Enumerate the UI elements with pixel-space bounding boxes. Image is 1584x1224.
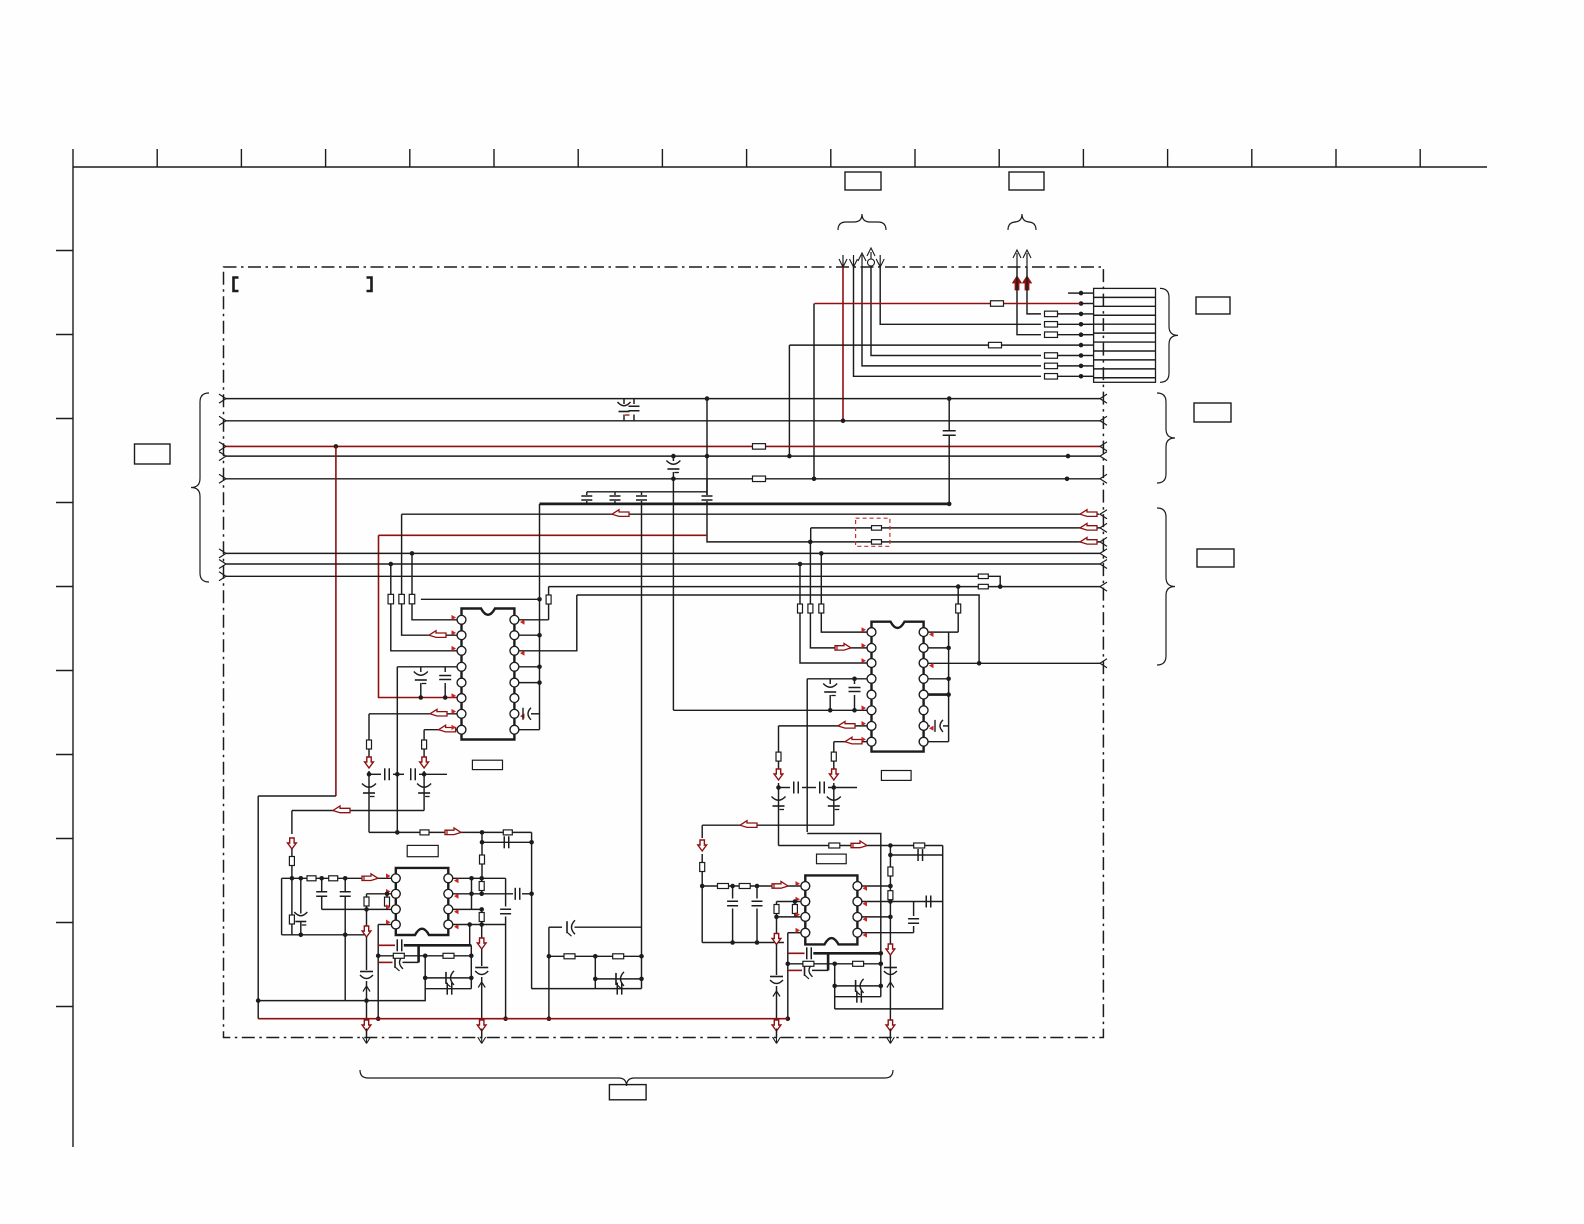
bus wire y=478.8 xyxy=(219,474,226,483)
polarized cap on wire y=970.4 xyxy=(804,965,806,976)
cap-arrow symbol on rail x=776.5 xyxy=(770,976,783,978)
resistor on wire y=832.4 left xyxy=(420,830,429,835)
wire IC1 pin3 from rail x=390.8 xyxy=(390,564,392,594)
red down arrow on rail x=890.4 xyxy=(886,944,895,955)
bus wire y=398.6 xyxy=(219,394,226,403)
red down arrow on rail x=481.7 xyxy=(477,938,486,949)
wire IC1 pin4 xyxy=(397,666,457,668)
wire y=564.0 xyxy=(219,560,226,569)
red arrow below red bus x=366.5 xyxy=(362,1020,371,1031)
wire IC4 pin1 with resistors xyxy=(702,885,800,887)
wire y=977.9 with pol cap xyxy=(423,976,428,981)
wire y=845.5 with resistors and arrow xyxy=(779,845,943,847)
wire top crossing x=1027 with red up arrow xyxy=(1026,253,1028,267)
left bus brace xyxy=(191,393,209,582)
rail x=371.8 continues to corner xyxy=(368,793,370,832)
red arrow below red bus x=481.7 xyxy=(477,1020,486,1031)
junction dot x=1068 y=456.1 xyxy=(1066,454,1071,459)
cap-arrow symbol on rail x=481.7 xyxy=(475,967,488,969)
wire y=842.3 with cap xyxy=(482,841,532,843)
rail x=787.8 down xyxy=(787,933,789,1019)
wire y=956.3 with resistors xyxy=(549,955,642,957)
page frame top ruler ticks xyxy=(73,149,1420,167)
red down arrow on rail x=369 xyxy=(365,757,374,768)
rail x=548.6 with resistor up to wire y=586.6 xyxy=(548,604,550,620)
op-amp IC1 body xyxy=(462,609,515,740)
junction dot x=397.3 y=832.4 xyxy=(395,830,400,835)
IC2 pins left xyxy=(867,628,876,746)
red down arrow on rail x=366.5 xyxy=(362,926,371,937)
wire y=855 with cap xyxy=(890,854,942,856)
connector brace xyxy=(1160,288,1178,382)
resistors on rail x=890.4 xyxy=(888,867,893,876)
resistor on connector pin5 wire xyxy=(1045,332,1058,338)
red arrow below red bus x=776.5 xyxy=(772,1020,781,1031)
wire y=796 from red vertical xyxy=(258,795,336,797)
red left arrow on IC2 pin7 wire xyxy=(838,721,855,728)
wire y=787.5 with series caps xyxy=(779,787,791,789)
wire IC3 pin1R xyxy=(453,877,506,879)
border crossing arrow x=481.7 xyxy=(478,1037,486,1044)
red left arrow on wire y=514.2 xyxy=(612,510,629,517)
red down arrow on rail x=833.8 xyxy=(829,769,838,780)
wire y=988.7 with cap xyxy=(425,988,471,990)
wire y=927.2 with pol cap xyxy=(549,926,562,928)
wire IC2 pin3R exit wire y=663.3 xyxy=(924,662,1100,664)
wire IC2 pin4 xyxy=(807,678,867,680)
red left arrow on IC1 pin7 wire xyxy=(430,709,447,716)
resistor on connector pin8 wire xyxy=(1045,363,1058,369)
electrolytic rail x=300.8 xyxy=(300,878,302,913)
red wire L from bus to IC1 pin6 xyxy=(379,534,708,536)
red right arrow on IC2 pin2 wire xyxy=(835,643,851,650)
red down arrow on rail x=424.1 xyxy=(420,757,429,768)
connector pin stubs and dots xyxy=(1079,291,1094,379)
wire vertical x=531.6 xyxy=(531,832,533,988)
rail x=834.7 xyxy=(834,964,836,1009)
connector pin1 stub wire xyxy=(1068,292,1081,294)
IC2 pin6 red mark xyxy=(862,705,867,710)
top over-brace 2 xyxy=(1008,214,1036,230)
wire IC2 pin3 from rail x=800 xyxy=(799,564,801,604)
red left arrow on IC1 pin8 wire xyxy=(439,725,456,732)
wire IC4 pin2 xyxy=(777,901,801,903)
rail x=807.2 down xyxy=(806,679,808,832)
wire IC1 pin7R with cap xyxy=(514,713,518,715)
bus wire y=446.4 red xyxy=(219,442,226,451)
junction dot x=539.5 y=599.3 xyxy=(537,597,542,602)
resistor on wire y=576.3 xyxy=(978,574,988,579)
wire y=514.2 xyxy=(402,513,1099,515)
wire IC4 pin4 xyxy=(788,932,801,934)
resistor on connector pin3 wire xyxy=(1045,311,1058,317)
wire IC1 pin5R xyxy=(514,682,539,684)
rail x=833.8 pin8 down xyxy=(833,742,835,752)
rail x=778.5 pin7 down xyxy=(778,726,780,752)
wire vertical x=673.4 to IC2 pin6 xyxy=(672,479,674,711)
junction dots on IC3 pin1 wire xyxy=(299,876,304,881)
wire IC3 pin4R xyxy=(453,924,506,926)
thick wire y=945.3 xyxy=(404,944,472,947)
wire IC1 pin8R xyxy=(514,729,539,731)
red dotted highlight box xyxy=(856,518,890,546)
wire IC2 pin2R xyxy=(924,647,949,649)
junction dot x=335.9 y=446.4 xyxy=(334,444,339,449)
junction dots on wire y=553.4 xyxy=(410,551,415,556)
IC3 label box xyxy=(407,845,438,856)
resistor rail x=387 between pin2 and pin3 wires xyxy=(386,894,388,897)
wire y=576.3 xyxy=(219,572,226,581)
rail x=425.2 xyxy=(258,956,425,1001)
bottom label box xyxy=(609,1085,646,1100)
red left arrow on wire y=810.5 xyxy=(333,806,350,813)
wire IC3 pin4 xyxy=(378,924,391,926)
red left arrow near border y=514.2 xyxy=(1080,510,1097,517)
red arrow below bus x=890.4 xyxy=(886,1020,895,1031)
capacitor pair between bus1 and bus2 xyxy=(623,399,625,404)
polarized cap on wire y=962.4 xyxy=(394,957,396,968)
wire y=810.5 with red arrow xyxy=(292,810,424,812)
junction dot x=948.5 y=398.6 xyxy=(947,396,952,401)
vertical x=539.5 from thick bus to pin8R xyxy=(539,504,541,730)
IC1 pins right xyxy=(510,615,519,734)
wire IC1 pin2 from rail x=401.6 xyxy=(401,514,403,594)
IC1 pin6 red mark xyxy=(452,693,457,698)
junction dot x=810.3 y=541.9 xyxy=(808,540,813,545)
page frame left ruler ticks xyxy=(56,251,73,1007)
red stub on wire y=962.4 xyxy=(378,961,392,963)
junction dots on IC4 pin1 wire xyxy=(730,884,735,889)
resistor on red bus y=446.4 xyxy=(753,444,766,450)
wire IC1 pin3R xyxy=(514,595,576,651)
cap rail x=732.6 xyxy=(732,886,734,899)
resistor on wire y=586.6 xyxy=(978,584,988,589)
thick bus wire y=503.9 xyxy=(540,502,950,505)
wire IC4 pin4R xyxy=(862,932,914,934)
wire y=832.4 under IC1 with resistors and arrow xyxy=(369,831,532,833)
wire top crossing x=862 xyxy=(861,255,863,267)
page frame left ruler line xyxy=(72,167,74,1147)
wire IC1 pin4R xyxy=(514,666,539,668)
cap on IC4 pin2R wire xyxy=(925,896,927,908)
bus wire y=420.8 xyxy=(219,416,226,425)
tall loop x=942.7 xyxy=(835,846,943,1009)
bottom brace xyxy=(360,1070,893,1086)
border crossing arrow x=776.5 xyxy=(773,1037,781,1044)
vertical x=505.6 with cap xyxy=(505,878,507,906)
IC1 label box xyxy=(472,760,502,769)
red left arrow on IC1 pin2 wire xyxy=(429,631,446,638)
wire IC2 pin5R thick xyxy=(924,693,949,696)
cap-arrow symbol on rail x=890.4 xyxy=(884,967,897,969)
vertical x=595.3 xyxy=(594,956,596,988)
wire top crossing x=1017 with red up arrow xyxy=(1016,253,1018,267)
red stub on thick wire y=953.3 xyxy=(788,952,805,954)
vertical x=471.3 xyxy=(470,945,472,988)
rail x=778.5 continues to corner xyxy=(778,806,780,846)
wire y=541.9 xyxy=(707,504,1100,542)
cap x=913.6 up xyxy=(913,926,915,933)
connector pin6 wire xyxy=(789,344,1081,346)
border crossing arrow x=366.5 xyxy=(363,1037,371,1044)
red left arrow on wire y=825.2 xyxy=(740,821,757,828)
wire IC2 pin1 from rail x=821.3 xyxy=(820,553,822,603)
junction dots on wire y=564.0 xyxy=(389,562,394,567)
junction dot x=1067 y=478.8 xyxy=(1065,477,1070,482)
capacitor row hanging from wire y=491.8 xyxy=(587,491,707,493)
wire IC4 pin2R xyxy=(862,901,943,903)
junction dot x=397.3 y=774.3 xyxy=(395,772,400,777)
wire IC2 pin2 from rail x=810.4 xyxy=(809,542,811,604)
IC3 pins left xyxy=(391,874,400,929)
wire IC2 pin8 xyxy=(834,741,867,743)
wire IC4 pin3 left xyxy=(777,916,801,918)
junction dots on wire y=586.6 xyxy=(956,584,961,589)
IC2 pins right xyxy=(919,628,928,746)
rail x=702.2 lower xyxy=(701,886,703,943)
capacitors between IC1 pin4 wire and red wire xyxy=(420,667,422,672)
thick wire y=953.3 xyxy=(813,952,881,955)
wire y=595.0 xyxy=(577,595,979,663)
red right arrow on wire y=832.4 xyxy=(445,828,461,835)
top label box 2 xyxy=(1009,172,1044,190)
IC2 label box xyxy=(881,771,911,781)
resistor on connector pin6 wire xyxy=(989,342,1002,348)
rail x=833.8 lower segment xyxy=(833,806,835,825)
wire vertical x=948.6 pin column xyxy=(948,632,950,742)
wire y=955.8 with resistors xyxy=(376,954,381,959)
IC3 pins right xyxy=(444,874,453,929)
rail x=366.5 from pin2 wire to border xyxy=(366,894,368,897)
wire y=963.8 with resistors xyxy=(786,962,791,967)
red stub on wire y=970.4 xyxy=(788,969,802,971)
rail x=291.9 lower with resistor xyxy=(291,878,293,915)
op-amp IC3 body xyxy=(396,868,449,935)
left bus label box xyxy=(135,444,171,464)
series cap on wire y=945.3 xyxy=(396,939,398,951)
rail x=397.3 down xyxy=(396,667,398,833)
junction dot x=482 y=832.4 xyxy=(480,830,485,835)
rail x=291.9 down to IC3 xyxy=(291,811,293,835)
wire y=978.9 with pol cap xyxy=(593,977,598,982)
resistor on wire y=832.4 right xyxy=(503,830,512,835)
rail x=890.4 down xyxy=(889,846,891,1038)
junction dot x=789.4 on wire y=456.1 xyxy=(787,454,792,459)
connector pin2 red wire xyxy=(815,303,1082,305)
wire top crossing x=843 red vertical xyxy=(842,255,844,267)
vertical x=548.9 to red bus xyxy=(548,927,550,1019)
right label box 2 xyxy=(1197,549,1234,567)
junction dot x=366.5 y=1000.6 xyxy=(364,998,369,1003)
IC pin circles overlay xyxy=(391,615,928,937)
IC4 label box xyxy=(817,854,847,864)
rail x=776.5 from pin2 wire to border xyxy=(776,902,778,905)
electrolytic cap below rail x=369 xyxy=(368,774,370,793)
rail x=481.7 down to border xyxy=(481,909,483,912)
resistor on wire y=527.9 xyxy=(872,526,882,531)
right brace group 1 xyxy=(1157,393,1175,483)
wire y=527.9 xyxy=(810,528,812,542)
IC1 pins left xyxy=(457,615,466,734)
wire black vertical x=814 xyxy=(813,304,815,479)
wire IC1 pin1R to resistor rail xyxy=(514,619,548,621)
resistor on bus y=478.8 xyxy=(753,476,766,482)
wire IC3 pin3R xyxy=(453,908,482,910)
wire IC2 pin7 xyxy=(779,725,868,727)
thick vertical x=828.1 xyxy=(827,953,830,970)
red down arrow on rail x=702.2 xyxy=(698,840,707,851)
wire IC3 pin1 with resistors xyxy=(282,877,391,879)
wire y=985.9 with pol cap xyxy=(832,984,837,989)
wire IC2 pin1R xyxy=(924,631,959,633)
junction dot x=843 on bus2 xyxy=(841,419,846,424)
red right arrow on IC4 pin1 wire xyxy=(772,882,788,889)
electrolytic cap below rail x=778.5 xyxy=(778,788,780,807)
op-amp IC2 body xyxy=(872,622,924,752)
junction dot x=673.4 y=478.8 xyxy=(671,477,676,482)
wire vertical x=949.2 with series cap xyxy=(948,399,950,431)
wire y=599.3 to vertical xyxy=(421,598,540,600)
rail x=958.2 resistor from wire y=586.6 xyxy=(957,587,959,604)
cap rail x=321.7 to pin3 wire xyxy=(321,878,323,891)
wire IC2 pin7R with cap xyxy=(924,725,930,727)
wire y=996.7 with cap xyxy=(835,996,881,998)
wire y=586.6 xyxy=(549,586,1100,588)
rail x=378.2 down xyxy=(377,925,379,1019)
wire vertical x=281.6 xyxy=(281,878,283,935)
red vertical x=335.9 xyxy=(335,446,337,796)
border crossing arrow x=890.4 xyxy=(886,1037,894,1044)
cap-arrow symbol on rail x=366.5 xyxy=(360,971,373,973)
bus wire y=456.1 xyxy=(219,452,226,461)
cap rail x=345.2 long xyxy=(344,878,346,891)
thick vertical x=418.6 xyxy=(417,945,420,962)
right label box 1 xyxy=(1194,403,1231,422)
capacitors between IC2 pin4 wire and pin6 wire xyxy=(829,679,831,684)
wire IC3 pin3 from cap rail x=321.7 xyxy=(322,908,391,910)
vertical x=471.5 pin1R to pin3R xyxy=(471,878,473,909)
junction dot x=814 on wire y=478.8 xyxy=(812,477,817,482)
wire IC1 pin1 from rail x=412 xyxy=(411,553,413,594)
resistor on connector pin7 wire xyxy=(1045,353,1058,359)
wire y=942.5 xyxy=(702,942,784,944)
red right arrow on IC3 pin1 wire xyxy=(362,874,378,881)
red stub on thick wire y=945.3 xyxy=(378,944,395,946)
board outline dash-dot box xyxy=(224,267,1104,1038)
wire IC4 pin1R xyxy=(862,885,890,887)
cap rail x=757 xyxy=(756,886,758,899)
series cap on wire y=953.3 xyxy=(806,947,808,959)
red bottom bus y=1018.7 xyxy=(258,1018,788,1020)
wire IC3 pin2 xyxy=(367,893,392,895)
electrolytic cap below rail x=833.8 xyxy=(833,788,835,807)
wire top crossing x=871 with circle xyxy=(870,252,872,267)
wire vertical x=789.4 xyxy=(788,345,790,456)
polarized capacitor x=673 between y=456 and y=478.8 xyxy=(671,454,676,459)
IC4 pins left xyxy=(801,882,810,938)
junction dot x=948.5 y=503.9 xyxy=(947,502,952,507)
wire IC1 pin8 xyxy=(424,729,457,731)
wire IC3 pin2R with cap to x=531.6 xyxy=(453,893,513,895)
wire y=988.6 with cap xyxy=(531,988,641,990)
red down arrow on rail x=778.5 xyxy=(774,769,783,780)
vertical x=880.8 continues xyxy=(880,953,882,996)
wire y=833.5 from rail x=807.2 xyxy=(807,834,881,954)
resistor on wire y=541.9 xyxy=(872,540,882,545)
connector CN body xyxy=(1094,288,1156,382)
wire IC1 pin2R xyxy=(514,634,539,636)
wire vertical x=641.5 long xyxy=(641,504,643,989)
wire y=825.2 from IC2 pin8 rail xyxy=(702,824,834,826)
wire IC4 pin3R xyxy=(862,916,890,918)
wire y=774.3 with series caps xyxy=(369,773,381,775)
wire IC2 pin8R xyxy=(924,741,949,743)
board name brackets xyxy=(234,278,239,292)
wire IC2 pin4R xyxy=(924,678,949,680)
red left arrow near border y=541.9 xyxy=(1080,537,1097,544)
top label box 1 xyxy=(845,172,881,190)
right brace group 2 xyxy=(1157,508,1175,665)
op-amp IC4 body xyxy=(805,875,857,944)
red down arrow on rail x=776.5 xyxy=(772,934,781,945)
top over-brace 1 xyxy=(838,214,886,230)
wire top crossing x=853.5 xyxy=(853,255,855,267)
resistor rail x=794.9 between IC4 pin2 and pin3 wires xyxy=(794,902,796,905)
wire IC1 pin7 xyxy=(369,713,457,715)
wire vertical x=258.2 xyxy=(257,796,259,1019)
vertical x=482 to IC3 pin1R xyxy=(481,832,483,855)
wire top crossing x=880.2 xyxy=(879,255,881,267)
red down arrow on rail x=291.9 xyxy=(288,838,297,849)
resistor on connector pin2 wire xyxy=(991,301,1004,307)
red left arrow on IC2 pin8 wire xyxy=(845,737,862,744)
red left arrow near border y=527.9 xyxy=(1080,523,1097,530)
rail x=369 pin7 down xyxy=(368,714,370,740)
IC4 pins right xyxy=(853,882,862,938)
wire y=553.4 xyxy=(219,549,226,558)
connector label box xyxy=(1196,297,1230,314)
wire vertical x=707 from bus1 to caps xyxy=(706,399,708,495)
resistor on connector pin4 wire xyxy=(1045,322,1058,328)
rail x=424.1 pin8 down xyxy=(423,730,425,740)
wire y=934.8 xyxy=(282,934,367,936)
page frame top ruler line xyxy=(73,166,1487,168)
resistor x=481.7 between pin1R and pin2R wires xyxy=(481,878,483,881)
rail x=702.2 from wire corner xyxy=(701,825,703,838)
electrolytic cap below rail x=424.1 xyxy=(423,774,425,793)
resistor on connector pin9 wire xyxy=(1045,374,1058,380)
